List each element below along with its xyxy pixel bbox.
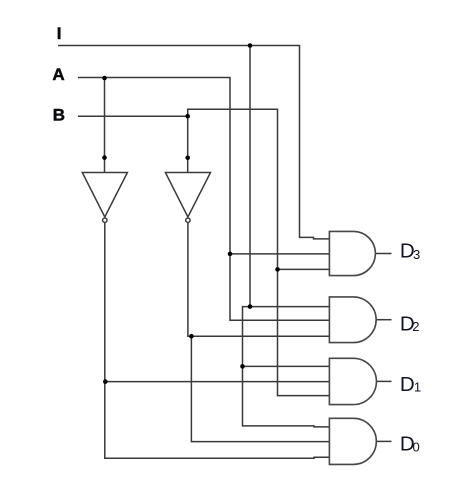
AND gate D2 xyxy=(329,297,376,343)
AND gate D0 xyxy=(329,418,376,464)
svg-text:I: I xyxy=(57,24,62,43)
wire D3 output stub xyxy=(376,253,392,255)
wire A' branch to D1 input 2 xyxy=(105,381,330,383)
wire B branch: up, right, down to D1 input 3 xyxy=(188,109,330,395)
wire D1 output stub xyxy=(376,380,392,382)
node A' to D1 xyxy=(103,379,108,384)
wire B main: B label to junction xyxy=(78,115,188,117)
node I to D2 xyxy=(248,304,253,309)
svg-text:B: B xyxy=(53,105,65,124)
svg-text:0: 0 xyxy=(413,439,420,454)
inverter U2 (NOT gate for B) xyxy=(165,173,210,223)
wire B drop to inverter 2 xyxy=(187,116,189,172)
node A to D3 xyxy=(228,252,233,257)
wire I main: I label to right bend, down to D3 input 1 with jog xyxy=(58,46,330,239)
wire A main: A label right then down to D2 input 2 xyxy=(78,78,330,321)
inverter U1 (NOT gate for A) xyxy=(82,173,127,223)
wire A branch to D3 input 2 xyxy=(230,253,330,255)
node B to D3 xyxy=(275,267,280,272)
wire B branch to D3 input 3 xyxy=(278,268,331,270)
svg-text:A: A xyxy=(52,65,64,84)
node I to D1 xyxy=(240,364,245,369)
wire B' output: inverter 2 down, jog right xyxy=(188,222,330,336)
wire A drop to inverter 1 xyxy=(104,78,106,173)
AND gate D3 xyxy=(329,231,375,275)
svg-text:3: 3 xyxy=(413,247,420,262)
wire I to D1 input 1 xyxy=(243,365,331,367)
AND gate D1 xyxy=(329,358,376,404)
node on I line xyxy=(248,43,253,48)
node above inverter U2 xyxy=(185,156,190,161)
node on A line xyxy=(102,76,107,81)
wire I lower jog: left then down to D1/D0 xyxy=(243,307,331,427)
wire D0 output stub xyxy=(376,440,392,442)
svg-text:2: 2 xyxy=(412,319,419,334)
wire D2 output stub xyxy=(376,319,392,321)
node on B line xyxy=(185,114,190,119)
node B' to D2 xyxy=(189,334,194,339)
wire B' lower drop to D0 input 2 xyxy=(191,336,330,441)
node above inverter U1 xyxy=(102,155,107,160)
wire I mid branch down to D2 input 1 xyxy=(250,46,330,307)
svg-text:1: 1 xyxy=(414,380,421,395)
wire A' output: inverter 1 down to bottom, right to D0 input 3 xyxy=(105,222,330,458)
svg-text:D: D xyxy=(400,373,415,396)
